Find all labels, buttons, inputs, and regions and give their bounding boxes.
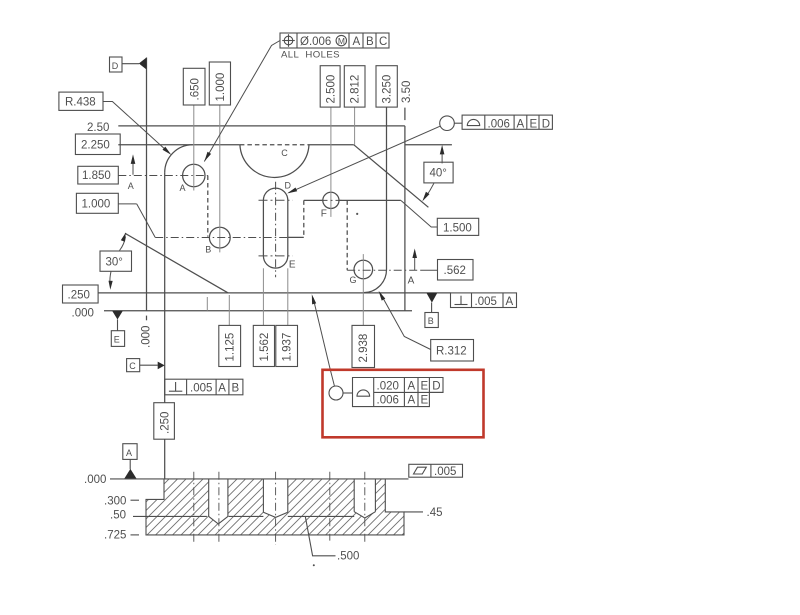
svg-text:1.937: 1.937 — [282, 333, 294, 362]
svg-text:1.125: 1.125 — [225, 333, 237, 362]
notch C semicircle — [240, 145, 309, 178]
datum E line (.000) — [104, 310, 412, 312]
40 deg lower leader — [425, 183, 434, 197]
dim box 1.000 left — [76, 193, 118, 213]
svg-text:2.938: 2.938 — [358, 334, 370, 363]
svg-text:.50: .50 — [110, 510, 126, 522]
svg-text:2.50: 2.50 — [87, 122, 109, 134]
slot centerline vertical — [275, 182, 277, 278]
datum C box — [127, 359, 140, 372]
dim box 2.250 — [75, 134, 120, 155]
svg-text:1.500: 1.500 — [443, 222, 472, 234]
bore G white cutout — [354, 478, 375, 518]
svg-text:2.812: 2.812 — [350, 75, 362, 104]
svg-text:.300: .300 — [104, 496, 126, 508]
svg-text:.020: .020 — [377, 381, 399, 393]
red box balloon leader — [313, 298, 334, 386]
R.438 corner arc — [165, 145, 193, 173]
pocket edge 1.500 line right of hole F — [339, 199, 401, 201]
part left step edge x=.25 — [164, 173, 166, 256]
svg-text:.000: .000 — [141, 326, 153, 348]
svg-text:C: C — [379, 36, 387, 48]
leader from profile FCF balloon to slot D — [289, 126, 441, 193]
svg-text:E: E — [421, 395, 429, 407]
dim box 40deg — [424, 162, 453, 183]
svg-text:R.438: R.438 — [65, 97, 96, 109]
bore slot cone — [263, 512, 287, 517]
30 deg lower curved leader — [110, 272, 111, 285]
step edge extension for 40 deg dimension — [405, 144, 452, 146]
slot D/E left wall — [262, 200, 264, 256]
part step edge right of notch — [309, 144, 354, 146]
datum D box — [110, 57, 123, 72]
svg-text:2.500: 2.500 — [326, 75, 338, 104]
svg-text:E: E — [421, 381, 429, 393]
.500 leader — [305, 517, 335, 556]
section .000 top line — [110, 478, 409, 480]
.650 dimension line down to hole A — [193, 105, 195, 191]
section centerline hole G — [364, 472, 366, 543]
svg-text:.006: .006 — [488, 118, 510, 130]
dim box 1.937 — [276, 325, 298, 366]
30 deg chamfer edge with extension — [125, 233, 228, 293]
40 deg chamfer edge with extension — [354, 145, 429, 208]
stray dot below .500 — [313, 564, 315, 566]
red highlight box — [323, 370, 484, 438]
part step edge (2.250 line) left of notch — [118, 144, 240, 146]
svg-text:Ø.006: Ø.006 — [300, 36, 331, 48]
dim box R.312 — [431, 340, 474, 362]
hole A — [183, 164, 205, 186]
30 deg lower arrowhead — [109, 281, 113, 290]
red box FCF balloon — [329, 386, 343, 400]
dim box .250 rotated — [154, 403, 175, 440]
svg-text:B: B — [428, 316, 434, 326]
svg-text:B: B — [366, 36, 374, 48]
svg-text:A: A — [408, 381, 416, 393]
FCF perpendicularity .005 A B frame — [165, 379, 243, 395]
3.250 dimension line / pocket right edge — [386, 107, 388, 269]
svg-text:3.250: 3.250 — [382, 75, 394, 104]
dim box .562 — [438, 260, 474, 281]
svg-text:A: A — [126, 448, 132, 458]
balloon to frame connector — [454, 122, 462, 124]
M circle modifier — [336, 35, 346, 45]
bore B cone — [209, 516, 228, 524]
dim box 1.850 — [78, 166, 119, 184]
bore slot walls — [262, 479, 264, 512]
profile of line dome symbol — [467, 119, 479, 125]
datum A box — [123, 444, 137, 460]
svg-text:1.562: 1.562 — [259, 333, 271, 362]
svg-text:A: A — [128, 181, 134, 191]
section view hatching — [95, 465, 490, 545]
30 deg upper curved leader — [120, 237, 126, 251]
datum C leader — [140, 364, 158, 366]
datum D extension line x=0 — [146, 58, 148, 311]
svg-text:G: G — [350, 275, 357, 285]
datum A stem — [129, 459, 131, 469]
bore B walls — [208, 479, 210, 517]
svg-text:B: B — [205, 244, 211, 254]
.562 leader solid part — [421, 269, 438, 271]
svg-text:.006: .006 — [377, 395, 399, 407]
slot D/E right wall — [287, 200, 289, 256]
pocket edge short horizontal at slot — [288, 236, 304, 238]
left step edge extension down to .250 box — [164, 256, 166, 403]
datum D filled triangle — [139, 58, 147, 70]
svg-text:.250: .250 — [68, 290, 90, 302]
leader from top FCF to hole A — [204, 41, 280, 162]
40 deg lower arrowhead — [422, 192, 429, 202]
svg-text:A: A — [408, 395, 416, 407]
1.850 direction arrowhead — [131, 154, 136, 164]
bore G cone — [354, 512, 375, 518]
svg-text:2.250: 2.250 — [81, 140, 110, 152]
perpendicularity glyph — [460, 296, 462, 305]
flatness parallelogram glyph — [414, 467, 427, 474]
2.500 dimension line down through hole F — [330, 107, 332, 217]
flatness FCF frame — [409, 464, 463, 477]
part top edge (2.50 line) — [118, 125, 405, 127]
dim box R.438 — [59, 92, 103, 110]
hole F (fills pocket line gap) — [323, 192, 339, 208]
svg-text:D: D — [112, 61, 119, 71]
datum C triangle — [158, 362, 165, 370]
svg-text:.250: .250 — [160, 412, 172, 434]
datum E stem — [117, 320, 119, 331]
svg-text:E: E — [114, 335, 120, 345]
svg-text:E: E — [530, 118, 538, 130]
datum D extension gap dash — [146, 316, 148, 321]
datum A triangle — [124, 469, 136, 479]
dim box 1.500 — [437, 218, 478, 235]
.725 leader — [131, 534, 140, 536]
hole G — [354, 260, 373, 279]
hidden step edge across notch C — [240, 144, 309, 146]
profile FCF balloon — [440, 116, 455, 131]
arrowhead at R.312 arc — [379, 291, 386, 301]
section centerline hole F — [329, 472, 331, 541]
bore G walls — [353, 479, 355, 512]
.562 direction arrowhead — [412, 249, 417, 259]
arrowhead at slot D — [287, 188, 297, 194]
1.125 extension line — [228, 295, 230, 325]
slot left wall extension to 1.562 box — [262, 268, 264, 325]
svg-text:D: D — [542, 118, 550, 130]
dim box .250 left — [63, 285, 99, 303]
svg-text:D: D — [285, 180, 292, 190]
datum E box — [111, 331, 124, 347]
part right edge (3.50) — [404, 126, 406, 311]
part bottom edge (.250 line) with extensions — [98, 292, 450, 294]
svg-text:1.000: 1.000 — [82, 199, 111, 211]
dome symbol in stacked FCF — [357, 390, 370, 396]
dim box 30deg — [100, 251, 132, 271]
section centerline hole A — [193, 472, 195, 543]
dim box 2.500 — [320, 66, 340, 107]
svg-text:.000: .000 — [72, 308, 94, 320]
R.438 leader — [103, 102, 168, 153]
pocket edge 1.500 line left of hole F — [304, 199, 323, 201]
hole B centerline horizontal (1.000) — [155, 237, 288, 239]
svg-text:30°: 30° — [106, 257, 123, 269]
right edge extension gap dash above — [404, 108, 406, 121]
svg-text:3.50: 3.50 — [401, 81, 413, 103]
.45 leader — [404, 511, 423, 513]
hidden edge from hole A to hole B — [207, 176, 209, 237]
left step edge extension to section view — [164, 439, 166, 479]
hole G centerline horizontal (.562) — [347, 269, 421, 271]
svg-text:1.850: 1.850 — [82, 170, 111, 182]
dim box .650 — [183, 68, 205, 105]
svg-text:A: A — [506, 296, 514, 308]
stacked FCF frame — [353, 378, 444, 407]
svg-text:.45: .45 — [427, 507, 443, 519]
svg-text:R.312: R.312 — [436, 346, 467, 358]
top FCF frame — [280, 33, 389, 48]
arrowhead at hole A — [204, 152, 211, 162]
.300 leader — [131, 499, 140, 501]
1.000 leader horizontal from box — [118, 203, 136, 205]
dim box 1.125 — [219, 325, 241, 366]
datum E triangle — [112, 311, 123, 320]
perpendicularity glyph — [175, 382, 177, 391]
arrowhead at part bottom edge — [312, 294, 316, 304]
slot bottom arc at E — [263, 256, 287, 268]
svg-text:40°: 40° — [430, 168, 447, 180]
hidden edge extension stub — [206, 297, 208, 311]
dim box 3.250 — [376, 66, 397, 107]
dim box 2.812 — [344, 66, 365, 107]
section centerline hole B — [218, 472, 220, 543]
stray dot — [356, 213, 358, 215]
2.812 dimension line down to chamfer start — [354, 107, 356, 145]
dim box 1.000 top — [209, 62, 230, 105]
hole A centerline horizontal — [118, 175, 208, 177]
svg-text:ALL HOLES: ALL HOLES — [281, 49, 340, 60]
position symbol — [284, 36, 293, 45]
slot top arc at D — [263, 188, 287, 200]
datum B triangle — [426, 293, 437, 303]
svg-text:A: A — [218, 382, 226, 394]
R.312 corner arc at hole G — [363, 270, 386, 293]
dim box 2.938 — [352, 325, 375, 367]
hidden pocket edge vertical right — [346, 200, 348, 270]
dim box 1.562 — [253, 325, 274, 366]
FCF profile .006 A E D frame — [462, 115, 552, 129]
section outline — [146, 479, 404, 535]
svg-text:.005: .005 — [475, 296, 497, 308]
hole F crosshair tick — [321, 199, 342, 201]
datum B stem — [431, 303, 433, 313]
svg-text:.562: .562 — [444, 265, 466, 277]
1.000 dimension line down through hole B — [219, 105, 221, 252]
R.312 leader — [380, 293, 430, 349]
1.850 direction arrow line — [132, 160, 134, 175]
hidden pocket edge vertical left — [303, 200, 305, 237]
datum D leader — [122, 63, 139, 65]
svg-text:A: A — [408, 276, 415, 287]
bore slot white cutout — [263, 478, 287, 517]
arrowhead at R.438 arc — [163, 147, 172, 155]
datum B box — [425, 313, 438, 328]
40 deg upper arrow line — [441, 151, 443, 164]
internal .50 depth line — [133, 515, 207, 517]
svg-text:M: M — [338, 36, 345, 46]
svg-text:C: C — [129, 361, 136, 371]
slot D crosshair tick — [259, 199, 293, 201]
1.000 leader diagonal — [137, 204, 156, 238]
svg-text:B: B — [232, 382, 240, 394]
slot E crosshair tick — [259, 255, 293, 257]
section centerline slot — [275, 472, 277, 545]
30 deg upper arrowhead — [121, 233, 126, 242]
FCF perpendicularity .005 A frame — [451, 293, 517, 308]
hole B — [209, 227, 230, 248]
svg-text:A: A — [353, 36, 361, 48]
svg-text:A: A — [180, 183, 186, 193]
svg-text:.650: .650 — [190, 78, 202, 100]
svg-text:D: D — [432, 381, 440, 393]
svg-text:.000: .000 — [84, 474, 106, 486]
40 deg upper arrowhead — [440, 145, 445, 155]
1.500 leader — [401, 201, 437, 228]
svg-text:.725: .725 — [104, 529, 126, 541]
svg-text:C: C — [281, 148, 288, 158]
svg-text:A: A — [517, 118, 525, 130]
bore B white cutout — [209, 478, 228, 524]
svg-text:F: F — [321, 209, 327, 220]
svg-text:.500: .500 — [337, 551, 359, 563]
balloon connector — [343, 392, 353, 394]
svg-text:.005: .005 — [190, 382, 212, 394]
slot right wall extension to 1.937 box — [287, 268, 289, 325]
svg-text:1.000: 1.000 — [215, 73, 227, 102]
svg-text:E: E — [289, 259, 296, 270]
hole G centerline extension to 2.938 box — [362, 254, 364, 325]
svg-text:.005: .005 — [434, 466, 456, 478]
.562 direction arrow line — [414, 255, 416, 270]
